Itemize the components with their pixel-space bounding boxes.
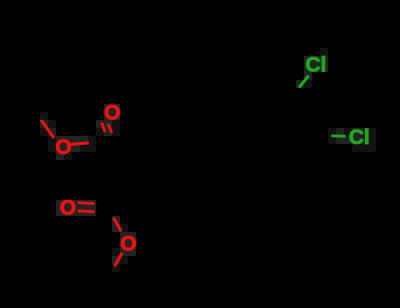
svg-text:O: O [120,233,136,256]
svg-text:Cl: Cl [349,126,370,149]
svg-text:Cl: Cl [305,53,326,76]
svg-text:O: O [60,197,76,220]
svg-text:O: O [104,102,120,125]
svg-text:O: O [55,136,71,159]
